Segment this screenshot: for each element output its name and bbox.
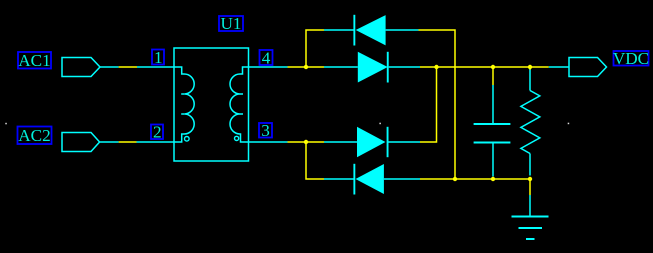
ground stub wire [529, 179, 531, 195]
resistor R top stub wire [529, 67, 531, 70]
transformer U1 secondary polarity dot [235, 136, 239, 140]
diode D2 (pointing right) [324, 52, 420, 83]
node junction resistor bottom / ground [528, 177, 532, 181]
stray screen dot right [568, 123, 570, 125]
wire jog down to D4 [306, 142, 324, 179]
pin 2 number label [151, 123, 163, 142]
wire pin3 to bridge [288, 141, 325, 143]
node junction pin4 [304, 65, 308, 69]
stray screen dot left [5, 123, 7, 125]
wire jog up to D1 [306, 30, 324, 67]
wire bottom rail [420, 178, 530, 180]
transformer U1 primary winding [174, 67, 194, 142]
port VDC symbol [569, 58, 607, 77]
svg-text:U1: U1 [220, 14, 241, 33]
wire pin4 to bridge [288, 66, 325, 68]
port VDC label box [613, 49, 649, 68]
svg-text:4: 4 [262, 48, 271, 67]
svg-text:AC2: AC2 [18, 126, 50, 145]
port AC2 label box [18, 126, 52, 145]
pin 1 lead [137, 66, 174, 68]
port AC2 symbol [62, 133, 100, 152]
capacitor C top stub wire [492, 67, 494, 85]
port AC1 label box [18, 51, 51, 70]
wire AC1 to pin1 [119, 66, 137, 68]
node junction D2/D3 [434, 65, 438, 69]
diode D3 (pointing right) [324, 127, 420, 157]
diode D4 (bottom, pointing left) [324, 164, 420, 195]
pin 4 number label [260, 48, 273, 67]
port AC1 lead [100, 66, 119, 68]
pin 3 lead [249, 141, 288, 143]
transformer U1 secondary winding junction ticks [240, 94, 243, 114]
node junction resistor top [528, 65, 532, 69]
transformer U1 body rectangle [174, 48, 249, 161]
pin 3 number label [259, 121, 272, 140]
pin 2 lead [137, 141, 175, 143]
node junction bottom D1 drop [453, 177, 457, 181]
transformer U1 designator label [219, 14, 243, 33]
transformer U1 primary winding junction ticks [181, 94, 184, 114]
svg-text:2: 2 [153, 123, 162, 142]
node junction pin3 [304, 140, 308, 144]
svg-text:AC1: AC1 [18, 51, 50, 70]
pin 1 number label [152, 48, 164, 67]
wire D2 right to top rail [420, 66, 549, 68]
wire AC2 to pin2 [119, 141, 137, 143]
transformer U1 secondary winding [230, 67, 249, 142]
capacitor C [474, 85, 511, 177]
svg-text:3: 3 [261, 121, 270, 140]
diode D1 (top, pointing left) [324, 15, 419, 46]
transformer U1 primary polarity dot [185, 137, 190, 142]
svg-text:VDC: VDC [613, 49, 649, 68]
svg-text:1: 1 [154, 48, 163, 67]
wire D3 cathode up to top rail [420, 67, 437, 142]
wire top rail to VDC [549, 66, 569, 68]
node junction cap top [491, 65, 495, 69]
wire D1 right to vertical drop [419, 30, 456, 179]
port AC2 lead [100, 141, 119, 143]
node junction cap bottom [491, 177, 495, 181]
ground symbol [512, 195, 549, 239]
resistor R [521, 70, 540, 176]
stray screen dot middle [379, 123, 381, 125]
port AC1 symbol [62, 58, 100, 77]
pin 4 lead [249, 66, 288, 68]
